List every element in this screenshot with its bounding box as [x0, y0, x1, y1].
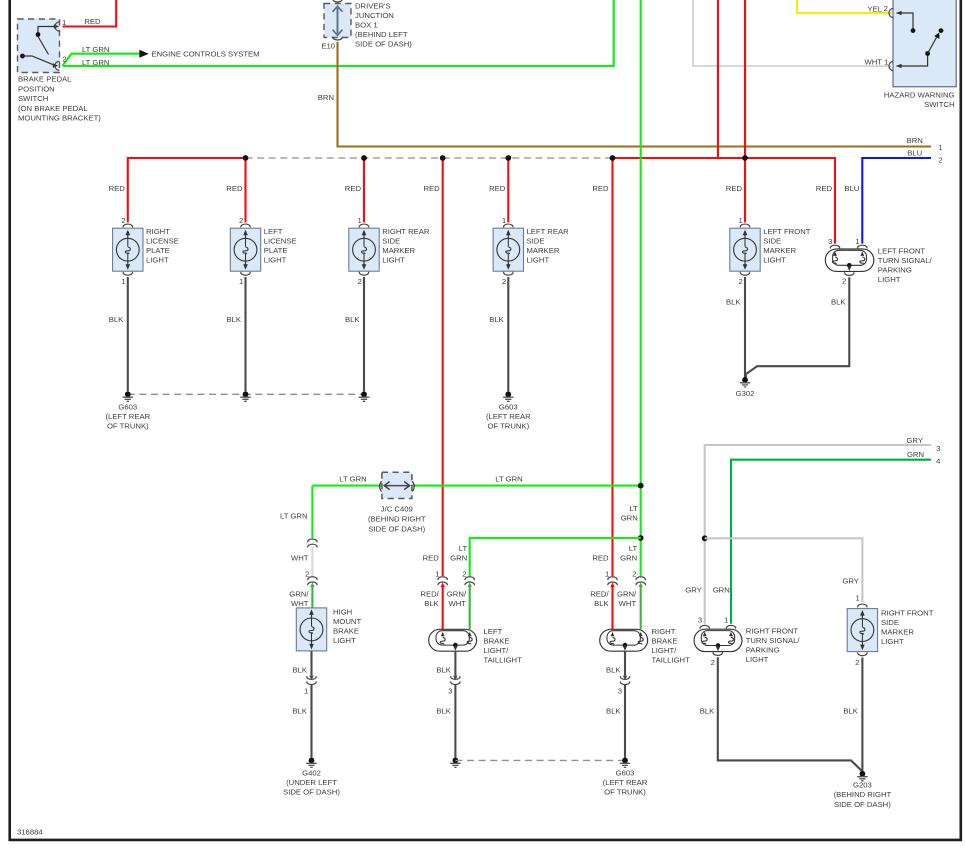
svg-text:MOUNTING BRACKET): MOUNTING BRACKET) — [18, 114, 101, 123]
pin 1 connector of right front side marker — [858, 604, 867, 607]
svg-text:LT GRN: LT GRN — [339, 474, 366, 483]
svg-text:SIDE: SIDE — [763, 237, 781, 246]
wire RED drop to left rear side marker light — [507, 158, 509, 222]
wire WHT to hazard switch pin 1 — [693, 0, 892, 66]
svg-text:RED/: RED/ — [590, 589, 609, 598]
node LT GRN junction for taillight feeds — [638, 535, 644, 541]
lamp left brake light / taillight — [429, 629, 477, 651]
svg-text:HIGH: HIGH — [333, 607, 352, 616]
svg-text:2: 2 — [358, 277, 362, 286]
svg-text:G603: G603 — [616, 769, 635, 778]
svg-text:LIGHT: LIGHT — [527, 256, 550, 265]
svg-text:316884: 316884 — [17, 827, 43, 836]
svg-text:BLK: BLK — [292, 707, 307, 716]
pin 1 connector of left front turn signal — [858, 245, 867, 248]
inline connector J/C C409 — [382, 472, 412, 498]
svg-text:BLK: BLK — [436, 707, 451, 716]
dashed ground tie between taillights — [455, 759, 625, 761]
svg-text:(LEFT REAR: (LEFT REAR — [486, 412, 531, 421]
pin 1 connector of left front side marker light — [740, 224, 749, 227]
svg-text:(LEFT REAR: (LEFT REAR — [603, 778, 648, 787]
lamp right front side marker light — [847, 609, 877, 652]
svg-text:1: 1 — [121, 277, 125, 286]
svg-text:(BEHIND RIGHT: (BEHIND RIGHT — [368, 514, 426, 523]
svg-text:LICENSE: LICENSE — [264, 237, 297, 246]
pin 2 connector of left front side marker light — [740, 272, 749, 275]
svg-text:BLK: BLK — [843, 707, 858, 716]
svg-text:RIGHT FRONT: RIGHT FRONT — [881, 609, 934, 618]
svg-text:(ON BRAKE PEDAL: (ON BRAKE PEDAL — [18, 104, 88, 113]
pin 1 connector of right front turn signal — [726, 625, 735, 628]
wire BLK from left rear side marker light to ground — [507, 277, 509, 391]
wire LT GRN from brake pedal switch pin 2 to top edge — [63, 0, 614, 66]
wire GRY branch to right front side marker pin 1 — [705, 538, 863, 602]
wire RED riser to top edge (x=745) — [744, 0, 746, 158]
node LT GRN junction at J/C line — [638, 483, 644, 489]
svg-text:3: 3 — [698, 615, 702, 624]
wire YEL to hazard switch pin 2 — [797, 0, 892, 13]
ground G603 (left rear of trunk) — [125, 391, 131, 397]
svg-text:LEFT REAR: LEFT REAR — [527, 227, 570, 236]
svg-text:SIDE OF DASH): SIDE OF DASH) — [834, 800, 891, 809]
svg-text:RED: RED — [489, 184, 506, 193]
wire LT GRN trunk from top edge down to taillights — [640, 0, 642, 576]
svg-text:ENGINE CONTROLS SYSTEM: ENGINE CONTROLS SYSTEM — [152, 49, 260, 58]
wire LT GRN from high mount branch through J/C C409 — [312, 485, 640, 487]
svg-text:MARKER: MARKER — [881, 628, 914, 637]
svg-text:BLU: BLU — [907, 148, 922, 157]
svg-text:MOUNT: MOUNT — [333, 617, 361, 626]
wire BLK from high mount brake light to ground G402 — [310, 685, 312, 758]
hazard warning switch — [893, 0, 956, 87]
svg-text:HAZARD WARNING: HAZARD WARNING — [884, 90, 955, 99]
brake pedal position switch — [18, 19, 60, 73]
node bus junction at right rear marker drop — [361, 155, 367, 161]
svg-text:LIGHT: LIGHT — [878, 275, 901, 284]
pin 2 connector of hazard switch — [889, 8, 894, 17]
lamp right rear side marker light — [349, 228, 379, 271]
svg-text:GRY: GRY — [906, 436, 923, 445]
svg-text:LIGHT: LIGHT — [763, 256, 786, 265]
svg-text:WHT: WHT — [448, 599, 466, 608]
wire GRN/WHT stub into left taillight — [469, 585, 471, 630]
wire BLK from right front side marker to ground G203 — [861, 658, 863, 772]
svg-text:G302: G302 — [736, 389, 755, 398]
svg-text:3: 3 — [618, 687, 622, 696]
svg-text:BRAKE: BRAKE — [333, 626, 359, 635]
wire GRN/WHT stub into high mount brake light — [311, 585, 313, 608]
node bus junction at left license drop — [243, 155, 249, 161]
pin 1 connector of brake pedal switch — [55, 22, 60, 31]
ground stub (left license plate light) — [243, 391, 249, 397]
svg-text:RED/: RED/ — [420, 589, 439, 598]
svg-text:LT: LT — [629, 504, 638, 513]
lamp right license plate light — [113, 228, 143, 271]
lamp right brake light / taillight — [600, 629, 648, 651]
svg-text:GRN: GRN — [713, 586, 730, 595]
svg-text:DRIVER'S: DRIVER'S — [355, 1, 391, 10]
svg-text:GRN/: GRN/ — [447, 589, 467, 598]
svg-text:G203: G203 — [853, 781, 872, 790]
lamp left front turn signal / parking light — [825, 249, 874, 272]
pin 3 connector of right taillight — [620, 677, 629, 680]
svg-text:(BEHIND RIGHT: (BEHIND RIGHT — [834, 790, 892, 799]
wire BLK from right front turn signal to ground G203 — [718, 657, 863, 771]
svg-text:GRN: GRN — [450, 553, 467, 562]
pin 2 connector of right front side marker — [858, 653, 867, 656]
svg-text:RED: RED — [592, 553, 609, 562]
svg-text:OF TRUNK): OF TRUNK) — [487, 422, 529, 431]
svg-text:MARKER: MARKER — [763, 246, 796, 255]
lamp high mount brake light — [296, 608, 326, 651]
svg-text:2: 2 — [239, 216, 243, 225]
dashed bus segment — [246, 157, 613, 159]
svg-text:LEFT FRONT: LEFT FRONT — [878, 246, 926, 255]
svg-text:MARKER: MARKER — [527, 246, 560, 255]
svg-text:G603: G603 — [118, 403, 137, 412]
svg-text:1: 1 — [856, 594, 860, 603]
wire RED drop to left license plate light — [244, 158, 246, 222]
svg-text:RED: RED — [84, 17, 101, 26]
svg-text:RED: RED — [109, 184, 126, 193]
svg-text:1: 1 — [62, 18, 66, 27]
svg-text:WHT: WHT — [864, 57, 882, 66]
svg-text:GRN: GRN — [620, 553, 637, 562]
svg-text:GRN/: GRN/ — [617, 589, 637, 598]
pin 3 connector of left front turn signal — [830, 245, 839, 248]
svg-text:LIGHT/: LIGHT/ — [484, 646, 510, 655]
svg-text:JUNCTION: JUNCTION — [355, 11, 394, 20]
pin 1 connector of left license plate light — [241, 272, 250, 275]
wire BRN from junction box E10 to right side net 1 — [338, 42, 932, 147]
wire BLU from net 2 to left front turn signal pin 1 — [862, 158, 931, 244]
wire RED/BLK stub into left taillight — [442, 585, 444, 630]
wire RED drop to right brake light / taillight pin 1 — [611, 158, 613, 576]
svg-text:1: 1 — [502, 216, 506, 225]
svg-text:SIDE OF DASH): SIDE OF DASH) — [283, 788, 340, 797]
off-page arrow ENGINE CONTROLS SYSTEM — [139, 50, 149, 58]
pin 2 connector of left rear side marker light — [504, 272, 513, 275]
pin 3 connector of right front turn signal — [700, 625, 709, 628]
svg-text:LIGHT: LIGHT — [746, 655, 769, 664]
node bus junction at left front marker drop — [742, 155, 748, 161]
ground stub at left taillight — [453, 758, 459, 764]
inline connector LT GRN / WHT — [308, 539, 317, 542]
svg-text:BLK: BLK — [831, 297, 846, 306]
svg-text:LEFT FRONT: LEFT FRONT — [763, 227, 811, 236]
svg-text:BLK: BLK — [424, 599, 439, 608]
svg-text:MARKER: MARKER — [382, 246, 415, 255]
ground G203 (behind right side of dash) — [860, 771, 866, 777]
wire BLK below right taillight — [624, 651, 626, 675]
svg-text:1: 1 — [938, 143, 942, 152]
svg-text:GRN: GRN — [621, 514, 638, 523]
wire GRN/WHT stub into right taillight — [640, 585, 642, 630]
svg-text:GRY: GRY — [842, 576, 859, 585]
lamp left license plate light — [230, 228, 260, 271]
wire BLK from left front turn signal to ground G302 — [746, 277, 850, 378]
svg-text:LEFT: LEFT — [264, 227, 283, 236]
svg-text:TAILLIGHT: TAILLIGHT — [652, 655, 691, 664]
svg-text:LIGHT: LIGHT — [333, 636, 356, 645]
connector E10 driver's junction box 1 — [324, 4, 351, 38]
svg-text:LT GRN: LT GRN — [280, 511, 307, 520]
svg-text:GRN/: GRN/ — [289, 589, 309, 598]
svg-text:4: 4 — [936, 457, 941, 466]
svg-text:BLK: BLK — [726, 297, 741, 306]
svg-text:YEL: YEL — [867, 5, 882, 14]
pin 2 connector of right license plate light — [123, 224, 132, 227]
svg-text:LT GRN: LT GRN — [495, 474, 522, 483]
svg-text:PLATE: PLATE — [264, 246, 288, 255]
svg-text:2: 2 — [711, 658, 715, 667]
svg-text:2: 2 — [121, 216, 125, 225]
pin 1 connector of right license plate light — [123, 272, 132, 275]
svg-text:E10: E10 — [321, 42, 335, 51]
svg-text:(LEFT REAR: (LEFT REAR — [105, 412, 150, 421]
svg-text:WHT: WHT — [291, 599, 309, 608]
wire WHT to high mount brake light pin 2 — [311, 547, 313, 577]
svg-text:LEFT: LEFT — [484, 627, 503, 636]
svg-text:G402: G402 — [302, 769, 321, 778]
svg-text:3: 3 — [828, 237, 832, 246]
svg-text:BLK: BLK — [489, 315, 504, 324]
svg-text:PARKING: PARKING — [878, 265, 912, 274]
svg-text:POSITION: POSITION — [18, 84, 55, 93]
node bus junction at left rear marker drop — [505, 155, 511, 161]
wire BLK from right rear side marker light to ground — [363, 277, 365, 391]
svg-text:BLU: BLU — [844, 184, 859, 193]
svg-text:3: 3 — [936, 444, 940, 453]
svg-text:LIGHT: LIGHT — [264, 256, 287, 265]
svg-text:BLK: BLK — [226, 315, 241, 324]
svg-text:OF TRUNK): OF TRUNK) — [604, 788, 646, 797]
svg-text:RED: RED — [816, 184, 833, 193]
svg-text:GRN: GRN — [907, 450, 924, 459]
svg-text:1: 1 — [739, 216, 743, 225]
wire GRY from net 3 to right front lights — [705, 445, 931, 624]
svg-text:BLK: BLK — [606, 707, 621, 716]
svg-text:SWITCH: SWITCH — [18, 94, 48, 103]
svg-text:BRN: BRN — [907, 136, 923, 145]
pin 2 connector of left license plate light — [241, 224, 250, 227]
svg-text:2: 2 — [855, 658, 859, 667]
wire BLK from right taillight to ground G603 — [624, 685, 626, 758]
svg-text:RIGHT FRONT: RIGHT FRONT — [746, 627, 799, 636]
wire RED/BLK stub into right taillight — [611, 585, 613, 630]
ground stub (right rear side marker light) — [361, 391, 367, 397]
svg-text:SWITCH: SWITCH — [924, 100, 954, 109]
svg-text:BLK: BLK — [700, 707, 715, 716]
wire BLK from left front side marker light to ground — [744, 277, 746, 378]
svg-text:PARKING: PARKING — [746, 646, 780, 655]
svg-text:WHT: WHT — [619, 599, 637, 608]
wire RED bus left segment — [128, 158, 246, 222]
svg-text:BLK: BLK — [606, 665, 621, 674]
svg-text:1: 1 — [884, 58, 888, 67]
lamp left rear side marker light — [493, 228, 523, 271]
svg-text:1: 1 — [239, 277, 243, 286]
ground G402 (under left side of dash) — [309, 758, 315, 764]
svg-text:2: 2 — [842, 277, 846, 286]
wire RED riser to top edge (x=718) — [717, 0, 719, 158]
wire RED drop to left front side marker light — [744, 158, 746, 222]
pin 2 connector of brake pedal switch — [55, 61, 60, 70]
node bus junction at left taillight drop — [440, 155, 446, 161]
svg-text:TAILLIGHT: TAILLIGHT — [484, 655, 523, 664]
svg-text:BRAKE: BRAKE — [484, 636, 510, 645]
svg-text:2: 2 — [739, 277, 743, 286]
node GRY junction — [702, 535, 708, 541]
ground G603 at left rear side marker light — [505, 391, 511, 397]
svg-text:RIGHT: RIGHT — [146, 227, 170, 236]
svg-text:BLK: BLK — [436, 665, 451, 674]
wire BLK from left taillight to ground — [454, 685, 456, 758]
svg-text:GRY: GRY — [685, 586, 702, 595]
svg-text:LIGHT: LIGHT — [881, 637, 904, 646]
svg-text:LIGHT: LIGHT — [382, 256, 405, 265]
svg-text:3: 3 — [448, 687, 452, 696]
wire RED from brake pedal switch pin 1 to top edge — [63, 0, 117, 27]
svg-text:G603: G603 — [499, 403, 518, 412]
wire LT GRN down to high mount inline connector — [311, 486, 313, 538]
pin 3 connector of left taillight — [451, 677, 460, 680]
svg-text:SIDE OF DASH): SIDE OF DASH) — [368, 524, 425, 533]
svg-text:(UNDER LEFT: (UNDER LEFT — [286, 778, 337, 787]
node bus junction at right taillight drop — [610, 155, 616, 161]
svg-text:WHT: WHT — [291, 554, 309, 563]
dashed ground tie line — [128, 393, 364, 395]
svg-text:BLK: BLK — [292, 665, 307, 674]
svg-text:RED: RED — [226, 184, 243, 193]
pin 2 connector of right rear side marker light — [359, 272, 368, 275]
pin 2 connector of left front turn signal — [845, 273, 854, 276]
svg-text:SIDE: SIDE — [382, 237, 400, 246]
svg-text:RED: RED — [423, 553, 440, 562]
ground G302 — [742, 377, 748, 383]
wire BLK below high mount brake light — [310, 651, 312, 676]
svg-text:1: 1 — [855, 237, 859, 246]
svg-text:2: 2 — [938, 155, 942, 164]
pin 2 connector of right front turn signal — [713, 653, 722, 656]
svg-text:1: 1 — [304, 687, 308, 696]
lamp right front turn signal / parking light — [694, 629, 742, 651]
svg-text:RIGHT: RIGHT — [652, 627, 676, 636]
svg-text:RIGHT REAR: RIGHT REAR — [382, 227, 430, 236]
svg-text:OF TRUNK): OF TRUNK) — [107, 422, 149, 431]
wire BLK below left taillight — [454, 651, 456, 675]
wire BLK from left license plate light to ground — [244, 277, 246, 391]
wire GRN from net 4 to right front turn signal pin 1 — [731, 460, 931, 624]
svg-text:LIGHT: LIGHT — [146, 256, 169, 265]
wire LT GRN to left taillight pin 2 branch — [470, 538, 641, 576]
svg-text:TURN SIGNAL/: TURN SIGNAL/ — [746, 636, 801, 645]
svg-text:2: 2 — [884, 4, 888, 13]
svg-text:LIGHT/: LIGHT/ — [652, 646, 678, 655]
svg-text:2: 2 — [632, 570, 636, 579]
wire RED drop to left brake light / taillight pin 1 — [442, 158, 444, 576]
svg-text:LT: LT — [459, 544, 468, 553]
svg-text:RED: RED — [345, 184, 362, 193]
svg-text:SIDE OF DASH): SIDE OF DASH) — [355, 39, 412, 48]
pin 1 connector of right rear side marker light — [359, 224, 368, 227]
svg-text:LT: LT — [629, 544, 638, 553]
svg-text:LT GRN: LT GRN — [82, 45, 109, 54]
svg-text:BLK: BLK — [109, 315, 124, 324]
svg-text:1: 1 — [358, 216, 362, 225]
svg-text:1: 1 — [724, 615, 728, 624]
wire RED drop to right rear side marker light — [363, 158, 365, 222]
svg-text:RED: RED — [592, 184, 609, 193]
svg-text:BRN: BRN — [318, 93, 334, 102]
svg-text:BLK: BLK — [594, 599, 609, 608]
svg-text:J/C C409: J/C C409 — [381, 505, 413, 514]
svg-text:SIDE: SIDE — [881, 618, 899, 627]
svg-text:BLK: BLK — [345, 315, 360, 324]
svg-text:RED: RED — [726, 184, 743, 193]
svg-text:BRAKE PEDAL: BRAKE PEDAL — [18, 75, 72, 84]
wire RED bus right segment to left front turn signal pin 3 — [613, 158, 836, 244]
svg-text:BOX 1: BOX 1 — [355, 20, 378, 29]
svg-text:SIDE: SIDE — [527, 237, 545, 246]
svg-text:PLATE: PLATE — [146, 246, 170, 255]
svg-text:LICENSE: LICENSE — [146, 237, 179, 246]
pin 1 connector of left rear side marker light — [504, 224, 513, 227]
svg-text:BRAKE: BRAKE — [652, 636, 678, 645]
svg-text:RED: RED — [423, 184, 440, 193]
pin 1 connector of hazard switch — [889, 61, 894, 70]
svg-text:TURN SIGNAL/: TURN SIGNAL/ — [878, 256, 933, 265]
wire BLK from right license plate light to ground — [127, 277, 129, 391]
svg-text:(BEHIND LEFT: (BEHIND LEFT — [355, 30, 408, 39]
ground G603 (left rear of trunk) at right taillight — [622, 758, 628, 764]
pin 1 connector of high mount brake light — [307, 677, 316, 680]
svg-text:2: 2 — [502, 277, 506, 286]
lamp left front side marker light — [730, 228, 760, 271]
wire LT GRN to engine controls system — [63, 54, 140, 66]
svg-text:2: 2 — [62, 54, 66, 63]
svg-text:LT GRN: LT GRN — [82, 58, 109, 67]
